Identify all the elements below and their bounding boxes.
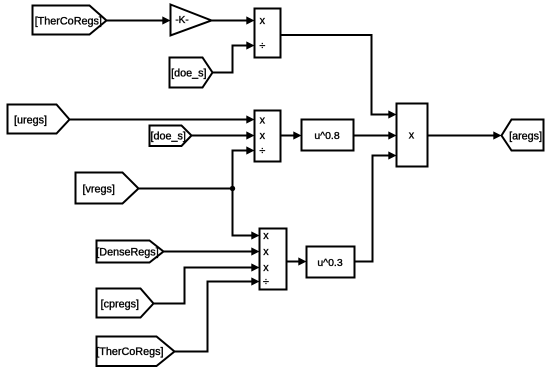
product P3 (x, x, x, divide): [260, 229, 287, 290]
From block [DenseRegs]: [96, 241, 163, 263]
wire P1 output to final product input 1: [281, 35, 397, 119]
From block [doe_s] 1: [170, 58, 213, 88]
product P1 (x over divide): [255, 9, 281, 58]
wire u^0.8 to final product input 2: [354, 131, 397, 139]
svg-text:x: x: [260, 15, 266, 27]
svg-text:[uregs]: [uregs]: [14, 115, 47, 127]
svg-text:[TherCoRegs]: [TherCoRegs]: [35, 16, 102, 28]
wire TherCoRegs top to gain: [107, 16, 171, 24]
wire P2 output to u^0.8: [281, 131, 302, 139]
wire junction down to P3 first x port: [233, 189, 260, 240]
svg-text:[doe_s]: [doe_s]: [150, 131, 185, 143]
svg-text:x: x: [409, 130, 415, 142]
wire final product to aregs: [428, 131, 502, 139]
svg-text:÷: ÷: [263, 276, 269, 288]
From block [TherCoRegs] bottom: [96, 337, 174, 367]
svg-text:[cpregs]: [cpregs]: [101, 298, 139, 310]
svg-text:x: x: [263, 262, 269, 274]
svg-text:x: x: [263, 230, 269, 242]
product P2 (x, x, divide): [255, 111, 281, 162]
svg-text:x: x: [260, 114, 266, 126]
From block [TherCoRegs] top: [33, 6, 107, 35]
final product P4 (x): [397, 104, 428, 167]
gain -K-: [171, 5, 212, 36]
svg-text:u^0.3: u^0.3: [317, 257, 343, 269]
wire doe_s1 to P1 divide port: [213, 41, 255, 72]
wire DenseRegs to P3 second x port: [164, 247, 260, 255]
wire uregs to P2 first x port: [70, 115, 255, 123]
svg-text:x: x: [260, 130, 266, 142]
junction node: [230, 186, 235, 191]
math function u^0.3: [307, 247, 355, 278]
wire cpregs to P3 third x port: [154, 263, 260, 303]
wire TherCoRegs bottom to P3 divide port: [175, 277, 260, 351]
svg-text:x: x: [263, 246, 269, 258]
wire junction up to P2 divide port: [233, 146, 255, 188]
svg-text:[vregs]: [vregs]: [82, 183, 114, 195]
wire doe_s2 to P2 second x port: [192, 131, 255, 139]
svg-text:÷: ÷: [259, 145, 265, 157]
wire P3 output to u^0.3: [287, 257, 307, 265]
svg-text:[doe_s]: [doe_s]: [171, 68, 206, 80]
wire vregs to junction: [139, 188, 233, 190]
svg-text:[DenseRegs]: [DenseRegs]: [96, 246, 158, 258]
wire u^0.3 to final product input 3: [355, 151, 397, 261]
svg-text:-K-: -K-: [175, 15, 188, 26]
svg-text:u^0.8: u^0.8: [314, 130, 340, 142]
Goto block [aregs]: [502, 120, 544, 151]
svg-text:[aregs]: [aregs]: [509, 130, 542, 142]
From block [doe_s] 2: [150, 126, 192, 147]
From block [vregs]: [76, 173, 139, 204]
From block [uregs]: [8, 105, 70, 134]
svg-text:÷: ÷: [259, 40, 265, 52]
From block [cpregs]: [97, 289, 154, 318]
svg-text:[TherCoRegs]: [TherCoRegs]: [96, 346, 163, 358]
wire gain to product P1: [212, 16, 255, 24]
math function u^0.8: [302, 120, 354, 151]
